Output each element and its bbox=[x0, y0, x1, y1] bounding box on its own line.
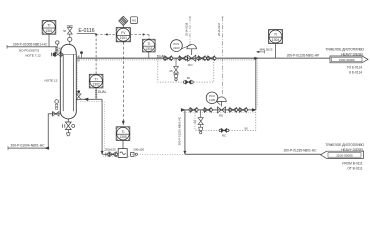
instrument PCV-1105 bbox=[206, 92, 218, 104]
svg-text:TI: TI bbox=[95, 77, 98, 81]
wire signal dashed FV down to TI-1305 bbox=[122, 42, 124, 121]
wire bottom line solid left bbox=[102, 153, 127, 155]
svg-text:200x150: 200x150 bbox=[133, 148, 144, 152]
wire riser upper bbox=[255, 58, 257, 110]
svg-text:DUAL: DUAL bbox=[98, 90, 107, 94]
svg-text:TI: TI bbox=[122, 130, 125, 134]
connector from B-0111 bbox=[321, 151, 364, 158]
svg-text:1105: 1105 bbox=[209, 98, 215, 102]
svg-text:50: 50 bbox=[187, 76, 191, 80]
wire inlet drop bbox=[56, 47, 58, 53]
wire TI-1301 lead bbox=[48, 34, 50, 47]
svg-text:NO: NO bbox=[219, 113, 224, 117]
valve bottom line bbox=[107, 153, 110, 156]
svg-text:200-P-01226-N801-HC: 200-P-01226-N801-HC bbox=[177, 117, 181, 146]
wire drain line left bbox=[8, 114, 60, 148]
valve inlet gate bbox=[51, 53, 53, 57]
svg-text:25-IA-0136: 25-IA-0136 bbox=[185, 22, 189, 36]
svg-text:TI: TI bbox=[48, 24, 51, 28]
svg-text:TI: TI bbox=[274, 33, 277, 37]
nozzle top line A tap bbox=[80, 51, 83, 54]
svg-text:NO POCKETS: NO POCKETS bbox=[19, 48, 39, 52]
svg-text:1305: 1305 bbox=[119, 135, 127, 139]
control valve upper bbox=[187, 44, 197, 49]
svg-text:FROM В-0111: FROM В-0111 bbox=[342, 162, 362, 166]
drain upper station bbox=[175, 58, 177, 66]
nozzle right mid bbox=[76, 91, 78, 93]
vessel E-0116 bbox=[60, 44, 76, 119]
wire main line A bbox=[76, 57, 256, 59]
svg-text:MW 2613: MW 2613 bbox=[260, 47, 273, 51]
valve bypass lower NC bbox=[219, 129, 222, 132]
spectacle blind bbox=[56, 41, 59, 44]
wire tracing dotted A bbox=[77, 59, 256, 61]
instrument TI-1305 bbox=[116, 127, 130, 141]
PSV vent above vessel bbox=[67, 25, 73, 27]
svg-text:TO E-0114: TO E-0114 bbox=[347, 66, 363, 70]
nozzle left upper circle bbox=[55, 100, 59, 104]
svg-text:200x150: 200x150 bbox=[105, 148, 116, 152]
wire bottom line dotted bbox=[127, 153, 185, 155]
vessel bottom outlet bbox=[67, 119, 69, 122]
control valve lower bbox=[217, 97, 227, 102]
svg-text:200-P-01235-N801-HC: 200-P-01235-N801-HC bbox=[284, 149, 317, 153]
fitting left bottom bbox=[105, 153, 107, 157]
svg-text:25-IA-0137: 25-IA-0137 bbox=[217, 22, 221, 36]
valves lower line bbox=[189, 109, 192, 112]
wire bottom line solid right bbox=[185, 153, 321, 155]
instrument HS box bbox=[131, 17, 138, 24]
wire IA dash-dot line 1 bbox=[189, 17, 191, 44]
wire riser lower bbox=[184, 110, 186, 154]
svg-text:ТЯЖЕЛОЕ ДИЗТОПЛИВО: ТЯЖЕЛОЕ ДИЗТОПЛИВО bbox=[325, 48, 364, 52]
svg-text:HS: HS bbox=[132, 19, 136, 23]
interlock symbol above FV bbox=[119, 16, 128, 27]
valve left nozzle bbox=[53, 111, 59, 116]
wire bottom tracing bbox=[103, 155, 136, 157]
svg-text:ОТ В-0111: ОТ В-0111 bbox=[347, 167, 362, 171]
svg-text:1301: 1301 bbox=[45, 29, 53, 33]
svg-text:ТЯЖЕЛОЕ ДИЗТОПЛИВО: ТЯЖЕЛОЕ ДИЗТОПЛИВО bbox=[325, 143, 364, 147]
wire inlet line bbox=[7, 46, 57, 48]
svg-text:2100-S0006: 2100-S0006 bbox=[339, 58, 355, 62]
fitting right of strainer bbox=[131, 152, 134, 156]
svg-text:1304: 1304 bbox=[272, 38, 280, 42]
svg-text:NO: NO bbox=[188, 63, 193, 67]
svg-text:2101: 2101 bbox=[120, 36, 128, 40]
instrument TI-1302 bbox=[95, 35, 97, 75]
wire lower bypass bbox=[195, 110, 256, 130]
svg-text:NOTE 7,12: NOTE 7,12 bbox=[25, 54, 41, 58]
instrument TI-1301 bbox=[42, 21, 56, 35]
svg-text:E-0116: E-0116 bbox=[78, 28, 94, 34]
svg-text:NC: NC bbox=[222, 134, 226, 138]
valve bypass upper NC bbox=[183, 81, 186, 84]
svg-text:1302: 1302 bbox=[92, 83, 100, 87]
svg-text:200-P-01004-N801-HC: 200-P-01004-N801-HC bbox=[11, 144, 46, 148]
svg-text:TI: TI bbox=[147, 42, 150, 46]
svg-text:NOTE 12: NOTE 12 bbox=[45, 79, 58, 83]
instrument TI-1304 bbox=[269, 30, 283, 44]
svg-text:1303: 1303 bbox=[145, 47, 152, 51]
wire upper bypass bbox=[158, 58, 214, 82]
wire outlet drop bbox=[101, 99, 103, 154]
svg-text:50: 50 bbox=[244, 126, 248, 130]
svg-text:25: 25 bbox=[169, 69, 173, 73]
wire signal dashed FV horizontal bbox=[96, 34, 116, 36]
valves on line A bbox=[164, 57, 167, 60]
wire lower station line bbox=[184, 109, 256, 111]
wire tracing drop along vessel bbox=[77, 61, 79, 102]
svg-text:2100-S0005: 2100-S0005 bbox=[336, 154, 353, 158]
vessel internals bbox=[62, 54, 64, 111]
svg-text:200-P-01226-N801-HP: 200-P-01226-N801-HP bbox=[287, 54, 320, 58]
instrument PCV-2103 bbox=[171, 40, 183, 52]
wire IA dash-dot line 2 bbox=[222, 17, 224, 96]
svg-text:К E-0114: К E-0114 bbox=[349, 71, 362, 75]
strainer S-device bbox=[118, 149, 127, 158]
wire vessel outlet line bbox=[79, 98, 102, 100]
svg-text:2103: 2103 bbox=[173, 46, 180, 50]
instrument FV-2101 bbox=[116, 28, 130, 42]
instrument TI-1303 bbox=[148, 35, 150, 40]
drain lower station bbox=[200, 110, 202, 117]
TI-1302 thermowell stem bbox=[95, 88, 97, 99]
connector to E-0114 bbox=[330, 56, 368, 63]
svg-text:200-P-01005-N801-HC: 200-P-01005-N801-HC bbox=[13, 42, 48, 46]
wire product header bbox=[256, 57, 332, 59]
